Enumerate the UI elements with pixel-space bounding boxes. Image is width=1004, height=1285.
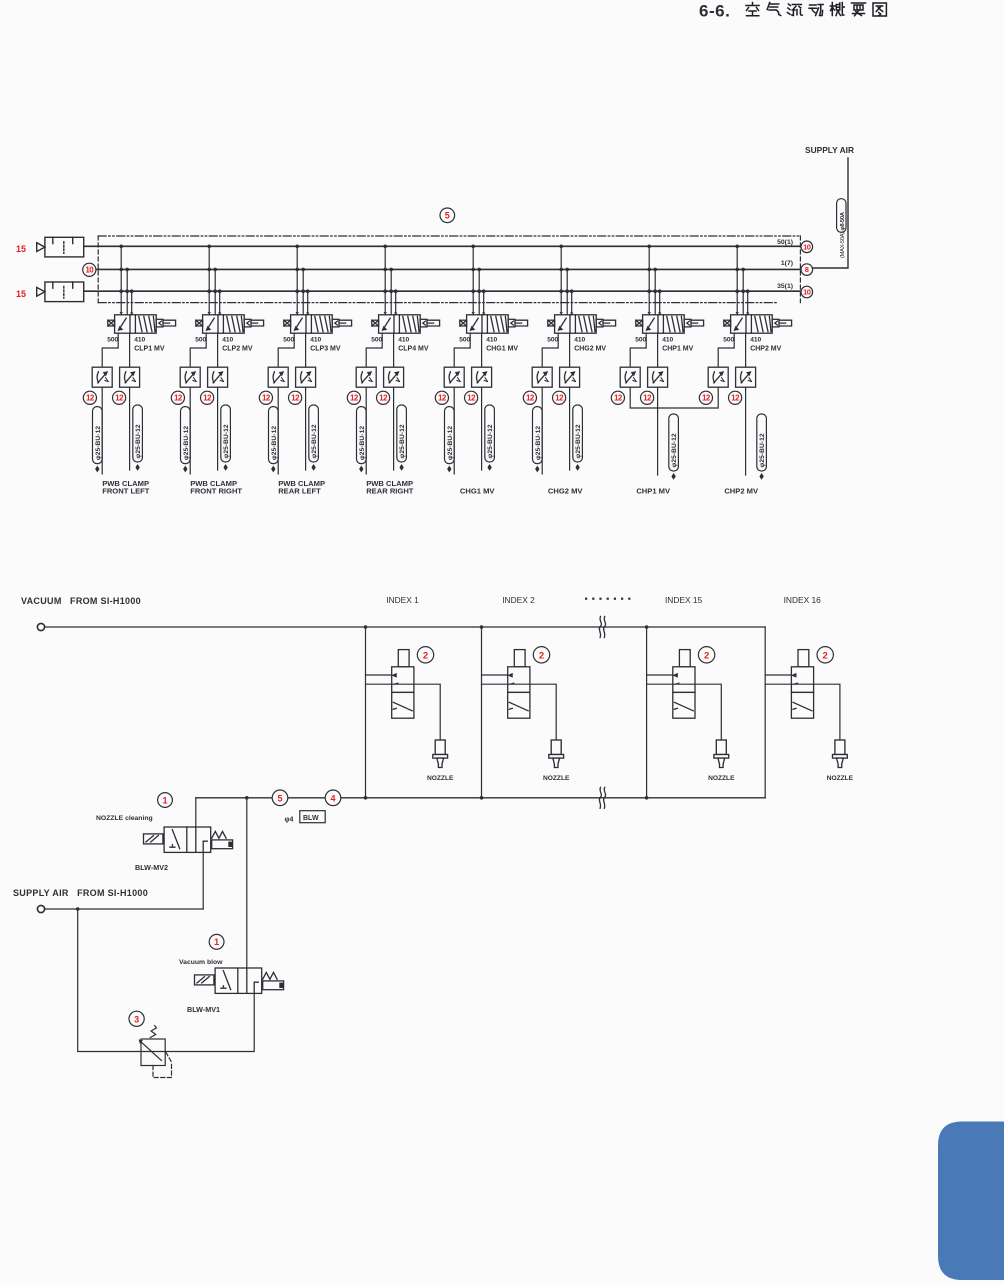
wire right branch down CLP1 MV (129, 387, 131, 470)
supply air pipe (813, 158, 848, 268)
vacuum bus wire (45, 626, 766, 628)
valve name label CLP1 MV (134, 346, 165, 353)
actuator label PWB CLAMP FRONT LEFT (102, 479, 150, 495)
svg-text:1: 1 (214, 937, 219, 947)
INDEX 15 port wire (647, 674, 673, 676)
port label 500 (107, 337, 118, 344)
callout 12 right CHG1 MV (465, 391, 478, 404)
svg-text:1: 1 (162, 795, 167, 805)
svg-text:BLW-MV2: BLW-MV2 (135, 863, 168, 872)
junction dots station CLP3 MV (295, 245, 309, 294)
flow control left CHP1 MV (620, 367, 640, 387)
svg-text:NOZZLE: NOZZLE (427, 775, 454, 782)
callout 12 right CLP2 MV (201, 391, 214, 404)
wire U link left branch CHP2 MV (0, 0, 1, 1)
wire U link left branch CHP1 MV (630, 387, 718, 408)
nozzle (INDEX 15) (714, 740, 729, 768)
callout 8 (right end) (801, 264, 813, 276)
hose tag right CLP4 MV (397, 405, 407, 471)
port label 500 (195, 337, 206, 344)
svg-text:410: 410 (134, 337, 145, 344)
solenoid valve CHG2 MV (548, 312, 616, 333)
actuator label CHP2 MV (724, 486, 759, 495)
vacuum inlet port (37, 623, 44, 630)
valve name label CLP2 MV (222, 346, 253, 353)
BLW-MV2 bottom port wire (202, 852, 204, 909)
junction dots station CLP2 MV (207, 245, 221, 294)
junction dots station CLP1 MV (119, 245, 133, 294)
hose tag phi4 BLW (285, 811, 326, 824)
callout 10 (left) (83, 263, 96, 276)
svg-text:CHG2 MV: CHG2 MV (574, 346, 606, 353)
svg-text:410: 410 (574, 337, 585, 344)
hose tag left CHG1 MV (445, 407, 455, 473)
port label 500 (283, 337, 294, 344)
port label 410 (750, 337, 761, 344)
wire right branch down CHP2 MV (745, 387, 747, 475)
title text 6-6. (699, 2, 730, 21)
callout 10 (right end) (801, 286, 813, 298)
callout 3 (regulator) (129, 1011, 144, 1026)
flow control right CHP2 MV (736, 367, 756, 387)
svg-text:CLP2 MV: CLP2 MV (222, 346, 253, 353)
svg-text:50(1): 50(1) (777, 239, 793, 246)
INDEX 1 junction dots (364, 625, 368, 799)
hose tag right CHG2 MV (573, 405, 583, 471)
svg-text:410: 410 (310, 337, 321, 344)
flow control left CLP3 MV (268, 367, 288, 387)
svg-text:NOZZLE: NOZZLE (708, 775, 735, 782)
flow control left CHP2 MV (708, 367, 728, 387)
flow control left CHG1 MV (444, 367, 464, 387)
supply wire (45, 908, 204, 910)
NOZZLE label (INDEX 15) (708, 775, 735, 782)
flow control left CLP4 MV (356, 367, 376, 387)
INDEX 1 vacuum valve (392, 650, 414, 719)
svg-text:2: 2 (823, 650, 828, 661)
junction dots station CHP1 MV (647, 245, 661, 294)
port label 500 (547, 337, 558, 344)
flow control right CHP1 MV (648, 367, 668, 387)
svg-text:2: 2 (539, 650, 544, 661)
svg-text:410: 410 (750, 337, 761, 344)
solenoid valve BLW-MV1 (195, 968, 284, 993)
wire valve to flow controls CLP4 MV (366, 333, 393, 367)
svg-text:FRONT LEFT: FRONT LEFT (102, 486, 150, 495)
svg-text:500: 500 (283, 337, 294, 344)
pipe size label 1(7) (781, 260, 793, 267)
callout 12 right CLP1 MV (113, 391, 126, 404)
svg-text:500: 500 (459, 337, 470, 344)
svg-text:INDEX 2: INDEX 2 (502, 595, 535, 605)
wire valve to flow controls CHG2 MV (542, 333, 569, 367)
callout 12 left CHP2 MV (699, 391, 712, 404)
port label 410 (486, 337, 497, 344)
junction dots station CHG1 MV (471, 245, 485, 294)
port label 500 (635, 337, 646, 344)
solenoid valve CHP1 MV (636, 312, 704, 333)
hose tag left CLP4 MV (357, 407, 367, 473)
wire valve to flow controls CLP1 MV (102, 333, 129, 367)
callout 4 (blow bus) (325, 790, 341, 806)
callout 12 left CHG1 MV (435, 391, 448, 404)
wire right branch down CHP1 MV (657, 387, 659, 475)
silencer filter F1 (37, 237, 84, 257)
callout 5 (manifold) (440, 208, 455, 223)
INDEX 15 label (665, 595, 703, 605)
hose tag left CLP3 MV (269, 407, 279, 473)
wire left branch down CLP3 MV (277, 387, 279, 474)
wire drops station CHP1 MV (649, 246, 660, 314)
INDEX 15 vacuum valve (673, 650, 695, 719)
svg-text:410: 410 (486, 337, 497, 344)
INDEX 2 drop wire (481, 627, 483, 798)
hose tag right CLP1 MV (133, 405, 143, 471)
svg-text:5: 5 (277, 793, 282, 803)
INDEX 15 nozzle wire (647, 684, 722, 740)
svg-text:CHP2 MV: CHP2 MV (750, 346, 781, 353)
callout 5 (blow bus) (272, 790, 288, 806)
port label 410 (574, 337, 585, 344)
callout 1 (BLW-MV2) (158, 793, 173, 808)
flow control right CLP1 MV (120, 367, 140, 387)
INDEX 16 vacuum valve (791, 650, 813, 719)
svg-text:2: 2 (704, 650, 709, 661)
svg-text:10: 10 (85, 266, 94, 275)
actuator label CHG2 MV (548, 486, 584, 495)
Vacuum blow label (179, 959, 223, 966)
NOZZLE label (INDEX 1) (427, 775, 454, 782)
svg-text:CHG1 MV: CHG1 MV (486, 346, 518, 353)
wire drops station CLP4 MV (385, 246, 396, 314)
svg-text:3: 3 (134, 1014, 139, 1024)
svg-text:VACUUM FROM SI-H1000: VACUUM FROM SI-H1000 (21, 596, 141, 606)
svg-text:410: 410 (222, 337, 233, 344)
solenoid valve CHG1 MV (460, 312, 528, 333)
BLW-MV2 name label (135, 863, 168, 872)
NOZZLE label (INDEX 16) (827, 775, 854, 782)
flow control right CHG1 MV (472, 367, 492, 387)
actuator label PWB CLAMP FRONT RIGHT (190, 479, 242, 495)
nozzle (INDEX 1) (433, 740, 448, 768)
valve name label CHG1 MV (486, 346, 518, 353)
VACUUM FROM SI-H1000 label (21, 596, 141, 606)
pipe break (blow bus) (599, 787, 605, 808)
supply branch wire down (78, 909, 141, 1052)
wire valve to flow controls CHG1 MV (454, 333, 481, 367)
supply pipe capsule tag (837, 199, 847, 258)
valve name label CLP3 MV (310, 346, 341, 353)
wire left branch down CLP4 MV (365, 387, 367, 474)
svg-text:410: 410 (662, 337, 673, 344)
svg-text:35(1): 35(1) (777, 283, 793, 290)
INDEX 16 nozzle wire (765, 684, 840, 740)
callout 12 left CLP4 MV (347, 391, 360, 404)
svg-text:CHG2 MV: CHG2 MV (548, 486, 584, 495)
INDEX 1 port wire (366, 674, 392, 676)
svg-text:CHG1 MV: CHG1 MV (460, 486, 496, 495)
INDEX 2 vacuum valve (508, 650, 530, 719)
INDEX 1 nozzle wire (366, 684, 441, 740)
bus line P (top) (84, 245, 800, 247)
INDEX 16 drop wire (764, 627, 766, 798)
callout 12 left CHP1 MV (611, 391, 624, 404)
wire right branch down CHG2 MV (569, 387, 571, 470)
INDEX 2 junction dots (480, 625, 484, 799)
port label 410 (662, 337, 673, 344)
svg-text:10: 10 (803, 288, 811, 297)
hose tag right CHP2 MV (757, 414, 767, 480)
svg-text:INDEX 15: INDEX 15 (665, 595, 703, 605)
solenoid valve CLP4 MV (372, 312, 440, 333)
SUPPLY AIR label (top right) (805, 145, 854, 155)
svg-text:15: 15 (16, 289, 26, 299)
wire drops station CHP2 MV (737, 246, 748, 314)
svg-text:500: 500 (635, 337, 646, 344)
callout 12 left CLP3 MV (259, 391, 272, 404)
svg-text:φ8-50A: φ8-50A (840, 211, 846, 230)
flow control right CLP3 MV (296, 367, 316, 387)
INDEX 2 label (502, 595, 535, 605)
svg-text:CHP1 MV: CHP1 MV (636, 486, 671, 495)
pipe size label 50(1) (777, 239, 793, 246)
svg-text:φ4: φ4 (285, 816, 294, 823)
flow control right CHG2 MV (560, 367, 580, 387)
hose tag left CLP1 MV (93, 407, 103, 473)
callout 12 right CHP2 MV (729, 391, 742, 404)
nozzle (INDEX 16) (833, 740, 848, 768)
svg-text:6-6.: 6-6. (699, 2, 730, 21)
valve name label CHP2 MV (750, 346, 781, 353)
INDEX 16 label (784, 595, 822, 605)
solenoid valve BLW-MV2 (144, 827, 233, 852)
svg-text:CLP4 MV: CLP4 MV (398, 346, 429, 353)
nozzle (INDEX 2) (549, 740, 564, 768)
callout 12 right CHP1 MV (641, 391, 654, 404)
solenoid valve CLP3 MV (284, 312, 352, 333)
svg-text:CLP3 MV: CLP3 MV (310, 346, 341, 353)
INDEX 15 drop wire (646, 627, 648, 798)
flow control left CHG2 MV (532, 367, 552, 387)
flow control right CLP2 MV (208, 367, 228, 387)
callout 2 (INDEX 16) (817, 647, 833, 663)
actuator label PWB CLAMP REAR LEFT (278, 479, 325, 495)
wire drops station CLP2 MV (209, 246, 220, 314)
NOZZLE cleaning label (96, 815, 153, 822)
svg-text:5: 5 (445, 211, 450, 221)
actuator label CHG1 MV (460, 486, 496, 495)
svg-text:(MAX-50A): (MAX-50A) (840, 232, 846, 258)
callout 2 (INDEX 2) (533, 647, 549, 663)
svg-text:10: 10 (803, 242, 811, 251)
regulator R1 (139, 1026, 172, 1078)
port label 410 (134, 337, 145, 344)
flow control left CLP2 MV (180, 367, 200, 387)
junction dot blow bus (245, 796, 249, 800)
solenoid valve CLP2 MV (196, 312, 264, 333)
svg-text:2: 2 (423, 650, 428, 661)
solenoid valve CLP1 MV (108, 312, 176, 333)
junction dots station CLP4 MV (383, 245, 397, 294)
wire drops station CHG2 MV (561, 246, 572, 314)
INDEX 16 port wire (765, 674, 791, 676)
junction dots station CHG2 MV (559, 245, 573, 294)
callout 2 (INDEX 15) (698, 647, 714, 663)
actuator label PWB CLAMP REAR RIGHT (366, 479, 414, 495)
wire right branch down CHG1 MV (481, 387, 483, 470)
manifold enclosure dash-dot border (98, 236, 800, 303)
supply inlet port (37, 905, 44, 912)
title CJK 空气流动概要图 (746, 3, 886, 17)
svg-text:REAR LEFT: REAR LEFT (278, 486, 321, 495)
port label 500 (723, 337, 734, 344)
callout 12 right CLP4 MV (377, 391, 390, 404)
BLW-MV1 name label (187, 1005, 220, 1014)
svg-text:BLW-MV1: BLW-MV1 (187, 1005, 220, 1014)
BLW-MV1 top port wire (246, 798, 248, 968)
svg-text:500: 500 (723, 337, 734, 344)
flow control right CLP4 MV (384, 367, 404, 387)
svg-text:CHP1 MV: CHP1 MV (662, 346, 693, 353)
junction dots station CHP2 MV (735, 245, 749, 294)
callout 12 left CHG2 MV (523, 391, 536, 404)
wire drops station CLP1 MV (121, 246, 132, 314)
callout 2 (INDEX 1) (417, 647, 433, 663)
wire valve to flow controls CLP3 MV (278, 333, 305, 367)
actuator label CHP1 MV (636, 486, 671, 495)
callout 12 right CHG2 MV (553, 391, 566, 404)
INDEX 1 drop wire (365, 627, 367, 798)
svg-text:REAR RIGHT: REAR RIGHT (366, 486, 414, 495)
INDEX 1 label (386, 595, 419, 605)
svg-text:NOZZLE cleaning: NOZZLE cleaning (96, 815, 153, 822)
INDEX 2 port wire (482, 674, 508, 676)
port label 410 (398, 337, 409, 344)
BLW-MV2 top port wire (195, 798, 197, 827)
port label 410 (222, 337, 233, 344)
valve name label CHG2 MV (574, 346, 606, 353)
svg-text:4: 4 (330, 793, 335, 803)
flow control left CLP1 MV (92, 367, 112, 387)
pipe size label 35(1) (777, 283, 793, 290)
INDEX 2 nozzle wire (482, 684, 557, 740)
svg-text:500: 500 (107, 337, 118, 344)
svg-text:BLW: BLW (303, 815, 319, 822)
svg-text:NOZZLE: NOZZLE (827, 775, 854, 782)
svg-text:CLP1 MV: CLP1 MV (134, 346, 165, 353)
blow bus wire (196, 797, 765, 799)
svg-text:INDEX 16: INDEX 16 (784, 595, 822, 605)
wire right branch down CLP4 MV (393, 387, 395, 470)
svg-text:Vacuum blow: Vacuum blow (179, 959, 223, 966)
wire left branch down CHG1 MV (453, 387, 455, 474)
svg-text:INDEX 1: INDEX 1 (386, 595, 419, 605)
callout 10 (right end) (801, 241, 813, 253)
hose tag right CHP1 MV (669, 414, 679, 480)
bus line R (middle) (96, 268, 800, 270)
INDEX 15 junction dots (645, 625, 649, 799)
svg-text:8: 8 (805, 265, 809, 274)
port label 500 (371, 337, 382, 344)
svg-text:SUPPLY AIR FROM SI-H1000: SUPPLY AIR FROM SI-H1000 (13, 888, 148, 898)
hose tag right CHG1 MV (485, 405, 495, 471)
valve name label CHP1 MV (662, 346, 693, 353)
port label 410 (310, 337, 321, 344)
ellipsis dots between INDEX 2 and INDEX 15 (585, 598, 630, 600)
wire left branch down CHG2 MV (541, 387, 543, 474)
svg-text:CHP2 MV: CHP2 MV (724, 486, 759, 495)
svg-text:500: 500 (195, 337, 206, 344)
junction dot supply (76, 907, 80, 911)
label 15 (F1) (16, 244, 26, 254)
hose tag right CLP2 MV (221, 405, 231, 471)
svg-text:410: 410 (398, 337, 409, 344)
blue page tab (938, 1122, 1004, 1281)
pipe break (vacuum bus) (599, 617, 605, 638)
svg-text:15: 15 (16, 244, 26, 254)
wire drops station CHG1 MV (473, 246, 484, 314)
INDEX 16 junction dots (0, 0, 1, 1)
wire drops station CLP3 MV (297, 246, 308, 314)
svg-text:500: 500 (547, 337, 558, 344)
hose tag left CHG2 MV (533, 407, 543, 473)
wire valve to flow controls CHP2 MV (718, 333, 745, 367)
svg-text:NOZZLE: NOZZLE (543, 775, 570, 782)
NOZZLE label (INDEX 2) (543, 775, 570, 782)
SUPPLY AIR FROM SI-H1000 label (13, 888, 148, 898)
svg-text:1(7): 1(7) (781, 260, 793, 267)
wire valve to flow controls CLP2 MV (190, 333, 217, 367)
svg-text:FRONT RIGHT: FRONT RIGHT (190, 486, 242, 495)
hose tag right CLP3 MV (309, 405, 319, 471)
label 15 (F2) (16, 289, 26, 299)
callout 12 right CLP3 MV (289, 391, 302, 404)
wire left branch down CLP1 MV (101, 387, 103, 474)
solenoid valve CHP2 MV (724, 312, 792, 333)
port label 500 (459, 337, 470, 344)
callout 12 left CLP1 MV (83, 391, 96, 404)
callout 12 left CLP2 MV (171, 391, 184, 404)
valve name label CLP4 MV (398, 346, 429, 353)
BLW-MV1 bottom port wire (164, 993, 254, 1051)
callout 1 (BLW-MV1) (209, 934, 224, 949)
svg-text:SUPPLY AIR: SUPPLY AIR (805, 145, 854, 155)
svg-text:500: 500 (371, 337, 382, 344)
silencer filter F2 (37, 282, 84, 302)
wire left branch down CLP2 MV (189, 387, 191, 474)
bus line S (bottom) (84, 290, 800, 292)
wire right branch down CLP2 MV (217, 387, 219, 470)
hose tag left CLP2 MV (181, 407, 191, 473)
wire right branch down CLP3 MV (305, 387, 307, 470)
wire valve to flow controls CHP1 MV (630, 333, 657, 367)
